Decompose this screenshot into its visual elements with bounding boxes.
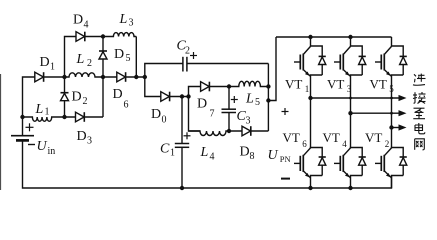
svg-text:in: in [48,146,56,157]
diode D0 [157,92,189,102]
wire drop to L4 row [189,97,201,132]
svg-text:U: U [268,148,279,163]
svg-text:L: L [119,12,128,27]
node crossing blob phaseA-leg3 [349,97,352,100]
wire bottom rail middle [182,187,311,189]
svg-text:3: 3 [129,18,134,29]
diode D7 [196,82,229,92]
svg-text:6: 6 [302,139,307,149]
svg-text:1: 1 [45,107,50,118]
diode D3 [65,112,104,122]
text wang (grid) [415,139,425,150]
svg-text:6: 6 [124,100,129,111]
node bridge tap on DC bus [266,98,270,102]
diode D1 [31,72,65,82]
diode D5 [99,37,107,78]
transistor VT6 (IGBT) [294,148,326,189]
node D0 out to C1 [180,94,184,98]
svg-text:L: L [245,92,254,107]
svg-text:8: 8 [250,151,255,162]
wire DC bus vertical [267,64,269,132]
svg-text:1: 1 [170,148,175,159]
text jie (connect2) [413,92,426,104]
label UPN minus sign [281,178,290,180]
wire L3 down-lead [135,37,137,78]
svg-text:C: C [160,142,170,157]
node rail to C2/D0 riser [143,75,147,79]
wire riser battery node to D1 row [23,77,32,117]
node VT6 emitter on bottom rail [308,186,312,190]
svg-text:7: 7 [210,109,215,120]
node L3 down-lead on rail [134,75,138,79]
svg-text:2: 2 [87,58,92,69]
node D7-C3-L5 junction [227,84,231,88]
svg-text:0: 0 [162,115,167,126]
svg-text:VT: VT [283,130,300,145]
svg-text:3: 3 [87,136,92,147]
svg-text:D: D [114,47,124,62]
svg-text:VT: VT [365,130,382,145]
inductor L4 [189,131,230,136]
wire riser to C2 row [145,64,183,78]
inductor L1 [23,117,65,121]
svg-text:D: D [113,87,123,102]
node crossing blob phaseB-leg5 [390,112,393,115]
svg-text:PN: PN [280,154,291,164]
svg-text:D: D [72,90,82,105]
diode D2 [61,77,69,117]
svg-text:D: D [197,97,207,112]
svg-text:D: D [77,129,87,144]
svg-text:5: 5 [255,97,260,108]
svg-text:5: 5 [389,84,394,94]
wire phase C output arrow [392,124,407,130]
wire bottom rail right [311,176,392,188]
text lian (connect) [413,74,426,86]
node L4-C3-D8 junction [227,129,231,133]
transistor VT4 (IGBT) [334,148,366,189]
svg-text:2: 2 [185,46,190,57]
diode D4 [71,32,103,42]
label Uin plus sign [26,123,34,131]
diode D8 [229,126,268,136]
text dian (electric) [415,123,425,134]
node phase B tap [348,111,352,115]
svg-text:1: 1 [305,84,310,94]
wire bridge top rail [276,36,392,38]
capacitor C1 [175,97,189,189]
transistor VT3 (IGBT) [334,37,366,113]
svg-text:VT: VT [323,130,340,145]
node leg1 on top rail [308,35,312,39]
node D4-L3-D5 junction [101,34,105,38]
node L2-D5-D6-D3 junction [101,75,105,79]
wire left page edge artifact [0,74,2,190]
wire C2 right to DC bus [187,63,269,65]
inductor L5 [229,81,268,86]
wire D3 up-lead [102,77,104,117]
label C2 plus [190,52,197,59]
svg-text:D: D [73,13,83,28]
node battery-L1 junction [20,115,24,119]
battery Uin [11,136,34,141]
wire tap to bridge top rail [268,37,276,101]
transistor VT2 (IGBT) [375,148,407,189]
svg-text:1: 1 [50,62,55,73]
capacitor C3 [222,87,237,132]
text zhi (to) [413,108,425,119]
node L1-D2-D3 junction [62,115,66,119]
svg-text:D: D [151,107,161,122]
wire leg1 mid vertical [310,98,312,148]
diode D6 [103,72,145,82]
svg-text:4: 4 [342,139,347,149]
wire riser to top rail [65,37,72,78]
svg-text:L: L [76,52,85,67]
svg-text:2: 2 [385,139,390,149]
inductor L3 [103,33,136,37]
node L5 on DC bus [266,84,270,88]
capacitor C2 [183,57,187,72]
transistor VT5 (IGBT) [375,37,407,128]
wire phase A output arrow [311,95,407,101]
svg-text:4: 4 [84,20,89,31]
svg-text:5: 5 [126,53,131,64]
svg-text:L: L [200,145,209,160]
svg-text:VT: VT [370,76,387,91]
wire battery bottom lead and bottom rail left [23,141,182,189]
node phase A tap [308,96,312,100]
wire leg5 mid vertical [391,128,393,148]
wire leg3 mid vertical [350,113,352,147]
node crossing blob phaseA-leg5 [390,97,393,100]
node C1 on bottom rail [180,186,184,190]
label UPN plus sign [282,108,289,115]
svg-text:VT: VT [327,76,344,91]
wire phase B output arrow [351,110,407,116]
node VT4 emitter on bottom rail [348,186,352,190]
svg-text:3: 3 [246,116,251,127]
inductor L2 [65,73,104,77]
svg-text:L: L [35,102,44,117]
wire battery top lead [22,117,24,135]
label C3 plus [231,96,238,103]
svg-text:4: 4 [210,152,215,163]
transistor VT1 (IGBT) [294,37,326,98]
svg-text:2: 2 [83,96,88,107]
svg-text:VT: VT [285,76,302,91]
svg-text:D: D [240,145,250,160]
svg-text:U: U [37,139,48,154]
node leg3 on top rail [348,35,352,39]
wire riser to D7 row [189,87,197,97]
label Uin minus sign [28,144,35,146]
node phase C tap [389,125,393,129]
label C1 plus [184,132,191,139]
svg-text:D: D [40,55,50,70]
node D1-L2-D2-D4 junction [62,75,66,79]
wire drop to D0 row [145,77,157,97]
svg-text:3: 3 [347,84,352,94]
node D0 out to D7/L4 riser [186,94,190,98]
